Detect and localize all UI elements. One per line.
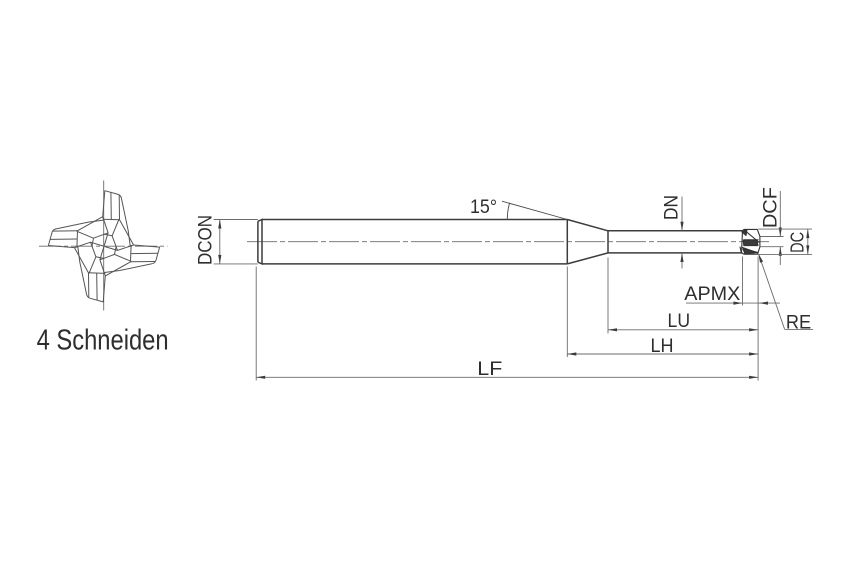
neck top edge	[608, 230, 743, 232]
extension line tool tip long	[757, 257, 759, 381]
taper bottom edge	[567, 253, 608, 264]
dimension DCF line	[779, 191, 781, 237]
DCF arrow down	[779, 228, 782, 237]
arm blade	[103, 191, 131, 246]
shank outline	[258, 220, 743, 264]
shank end face	[257, 221, 259, 262]
svg-text:4 Schneiden: 4 Schneiden	[37, 325, 169, 357]
cutter head	[740, 229, 760, 254]
LF arrow left	[256, 376, 265, 379]
RE underline	[785, 328, 814, 330]
svg-text:LH: LH	[651, 335, 674, 357]
dimension LH extension left	[566, 267, 568, 358]
dimension LF line	[256, 376, 758, 378]
LU arrow right	[749, 328, 758, 331]
svg-text:LU: LU	[668, 310, 691, 332]
15 degree construction line	[502, 201, 567, 219]
LH arrow left	[567, 352, 576, 355]
DN arrow down	[680, 222, 683, 231]
DC arrow down	[806, 245, 809, 254]
main view centerline	[247, 241, 772, 243]
APMX arrow right	[733, 302, 742, 305]
dimension LU line	[608, 329, 758, 331]
dimension DCF extension lower	[761, 246, 784, 248]
neck left junction	[607, 231, 609, 253]
svg-text:DCON: DCON	[195, 215, 217, 265]
DCON arrow down	[218, 255, 221, 264]
front view horizontal centerline	[39, 245, 168, 247]
svg-text:DCF: DCF	[759, 187, 781, 228]
svg-text:LF: LF	[477, 358, 502, 380]
extension line head start	[742, 257, 744, 306]
shank bottom edge	[262, 263, 567, 265]
DCF arrow up	[779, 247, 782, 256]
svg-text:DN: DN	[661, 195, 683, 220]
DN arrow up	[680, 253, 683, 262]
dimension LU extension left	[607, 258, 609, 334]
shank top edge	[262, 219, 567, 221]
DCON arrow up	[218, 220, 221, 229]
dimension DN line lower	[681, 253, 683, 269]
dimension DC line	[807, 229, 809, 254]
RE leader line	[759, 254, 785, 329]
LF arrow right	[749, 376, 758, 379]
dimension DC extension lower	[758, 253, 812, 255]
dimension LH line	[567, 353, 758, 355]
LH arrow right	[749, 352, 758, 355]
taper top edge	[567, 220, 608, 231]
dimension DCON line	[219, 220, 221, 264]
neck bottom edge	[608, 252, 743, 254]
dimension LF extension left	[255, 267, 257, 381]
svg-text:APMX: APMX	[684, 283, 740, 305]
15 degree angle arc	[507, 203, 509, 220]
APMX arrow left	[759, 302, 768, 305]
svg-text:RE: RE	[786, 311, 811, 333]
svg-text:DC: DC	[788, 232, 808, 253]
shank chamfer edge	[258, 220, 262, 264]
dimension DCON extension top	[214, 219, 258, 221]
svg-text:15°: 15°	[470, 196, 497, 218]
dimension DCF extension upper	[761, 236, 784, 238]
DC arrow up	[806, 229, 809, 238]
dimension DCON extension bottom	[214, 263, 258, 265]
dimension DN line upper	[681, 197, 683, 231]
LU arrow left	[608, 328, 617, 331]
dimension DC extension upper	[758, 228, 812, 230]
shank right end	[566, 220, 568, 264]
front view cutter body outline	[48, 191, 159, 302]
front view vertical centerline	[103, 181, 105, 311]
body facets quadrant	[77, 217, 103, 232]
RE leader arrow	[759, 254, 764, 263]
dimension APMX line	[686, 302, 780, 304]
